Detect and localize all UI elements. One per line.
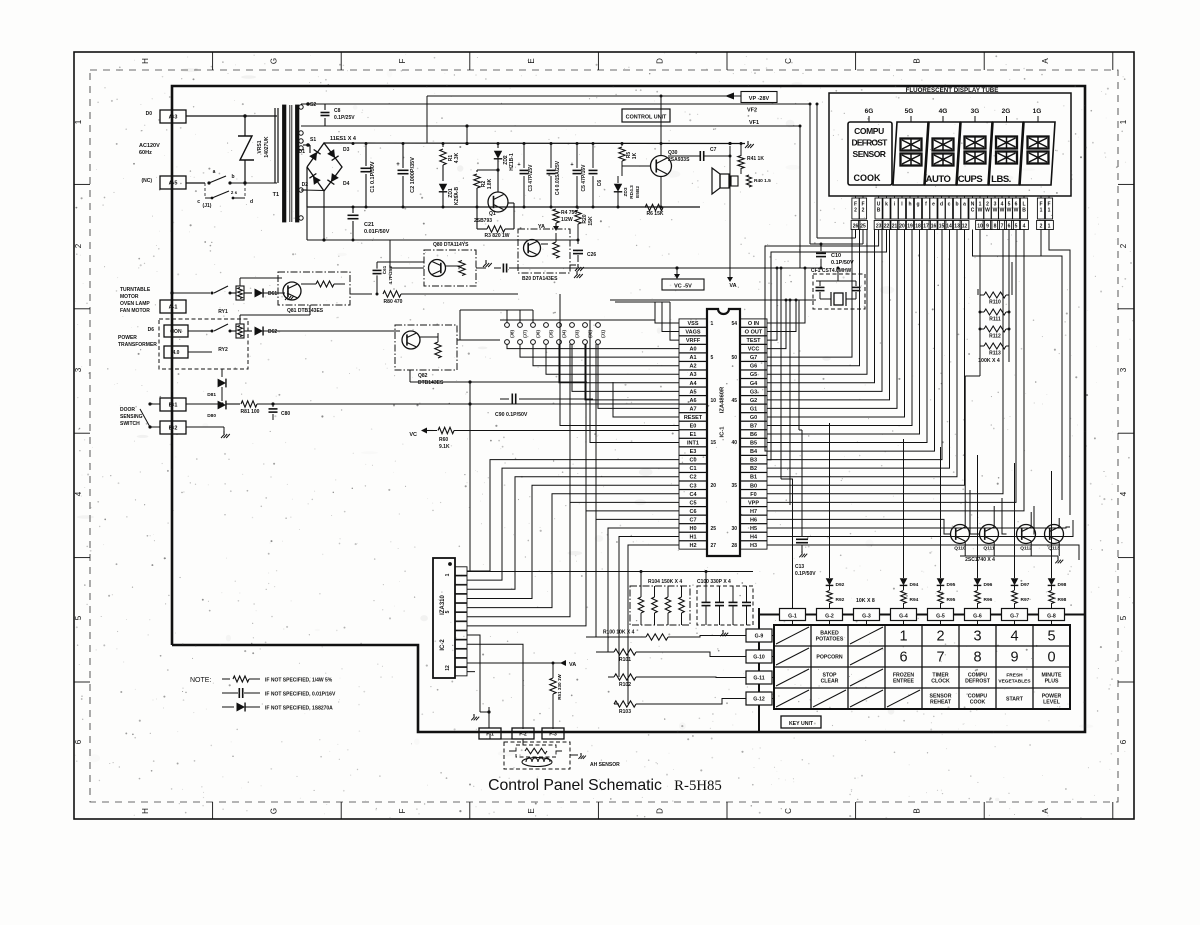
svg-text:H3: H3 xyxy=(750,543,757,549)
svg-text:c: c xyxy=(197,199,200,205)
svg-text:0.1P/50V: 0.1P/50V xyxy=(795,571,816,577)
svg-text:A0: A0 xyxy=(689,347,696,353)
svg-text:KEY UNIT: KEY UNIT xyxy=(789,721,814,727)
svg-text:A: A xyxy=(1041,58,1050,64)
svg-text:(J1): (J1) xyxy=(601,330,606,338)
svg-text:R41 1K: R41 1K xyxy=(747,156,764,162)
svg-text:D1: D1 xyxy=(299,149,306,155)
svg-text:G: G xyxy=(270,58,279,64)
svg-text:12: 12 xyxy=(962,224,968,230)
svg-text:FAN MOTOR: FAN MOTOR xyxy=(120,308,150,314)
svg-text:H7: H7 xyxy=(750,509,757,515)
svg-text:B: B xyxy=(877,208,881,214)
svg-text:POTATOES: POTATOES xyxy=(816,637,844,643)
svg-text:54: 54 xyxy=(731,321,737,327)
svg-text:5: 5 xyxy=(1119,615,1128,620)
svg-text:C90 0.1P/50V: C90 0.1P/50V xyxy=(495,412,528,418)
svg-text:A6: A6 xyxy=(689,398,696,404)
svg-text:0.1P/25V: 0.1P/25V xyxy=(334,115,355,121)
svg-text:COOK: COOK xyxy=(970,700,986,706)
svg-text:O IN: O IN xyxy=(748,321,759,327)
svg-text:b: b xyxy=(231,174,234,180)
svg-text:0.01F/50V: 0.01F/50V xyxy=(364,229,390,235)
svg-text:E1: E1 xyxy=(690,432,697,438)
svg-text:G-3: G-3 xyxy=(862,614,871,620)
svg-text:CONTROL UNIT: CONTROL UNIT xyxy=(626,115,667,121)
svg-text:AH SENSOR: AH SENSOR xyxy=(590,762,620,768)
svg-text:AC120V: AC120V xyxy=(139,143,160,149)
svg-text:F: F xyxy=(398,808,407,813)
svg-text:G-2: G-2 xyxy=(825,614,834,620)
svg-text:1G: 1G xyxy=(1033,108,1042,115)
svg-text:SWITCH: SWITCH xyxy=(120,421,140,427)
svg-text:2: 2 xyxy=(1040,224,1043,230)
svg-text:DTB143ES: DTB143ES xyxy=(418,380,444,386)
svg-text:TURNTABLE: TURNTABLE xyxy=(120,287,151,293)
svg-text:4: 4 xyxy=(1010,629,1018,645)
svg-text:+: + xyxy=(570,162,573,168)
svg-text:C7: C7 xyxy=(710,147,717,153)
svg-text:G4: G4 xyxy=(750,381,758,387)
svg-text:FRESH: FRESH xyxy=(1006,673,1023,679)
svg-text:NOTE:: NOTE: xyxy=(190,677,211,684)
svg-text:4.3K: 4.3K xyxy=(454,152,460,163)
svg-text:0.1P/50V: 0.1P/50V xyxy=(831,260,854,266)
svg-text:ZD3: ZD3 xyxy=(623,187,629,196)
svg-text:IF NOT SPECIFIED, 0.01P/16V: IF NOT SPECIFIED, 0.01P/16V xyxy=(265,692,336,698)
svg-text:C0: C0 xyxy=(689,458,696,464)
svg-text:R80 470: R80 470 xyxy=(384,299,403,305)
svg-text:(J7): (J7) xyxy=(523,330,528,338)
svg-text:k: k xyxy=(885,202,888,208)
svg-text:(NC): (NC) xyxy=(141,178,152,184)
svg-text:RD4.3: RD4.3 xyxy=(629,185,635,199)
svg-text:FLUORESCENT DISPLAY TUBE: FLUORESCENT DISPLAY TUBE xyxy=(906,87,999,94)
svg-text:C: C xyxy=(971,208,975,214)
svg-text:5: 5 xyxy=(1015,224,1018,230)
svg-text:R51 330 1W: R51 330 1W xyxy=(557,674,562,700)
svg-text:D: D xyxy=(655,808,664,814)
svg-text:RY1: RY1 xyxy=(218,309,228,315)
svg-text:G3: G3 xyxy=(750,389,757,395)
svg-text:9: 9 xyxy=(1010,650,1018,666)
svg-text:2: 2 xyxy=(74,243,83,248)
svg-text:26: 26 xyxy=(853,224,859,230)
svg-text:D: D xyxy=(655,58,664,64)
svg-text:2: 2 xyxy=(854,208,857,214)
svg-text:LBS.: LBS. xyxy=(991,174,1011,185)
svg-text:1K: 1K xyxy=(632,152,638,159)
svg-text:e: e xyxy=(932,202,935,208)
svg-text:1: 1 xyxy=(445,573,451,576)
svg-text:G-7: G-7 xyxy=(1010,614,1019,620)
svg-text:50: 50 xyxy=(731,355,737,361)
svg-text:a: a xyxy=(213,169,216,175)
svg-text:COOK: COOK xyxy=(854,173,882,183)
svg-text:LEVEL: LEVEL xyxy=(1043,700,1061,706)
svg-text:3G: 3G xyxy=(971,108,980,115)
svg-text:SENSOR: SENSOR xyxy=(853,149,886,159)
svg-text:30: 30 xyxy=(731,526,737,532)
svg-text:G-4: G-4 xyxy=(899,614,908,620)
svg-text:G-10: G-10 xyxy=(753,655,765,661)
svg-text:R112: R112 xyxy=(989,334,1001,340)
svg-text:VC -5V: VC -5V xyxy=(674,284,692,290)
svg-text:R100 10K X 4: R100 10K X 4 xyxy=(603,630,635,636)
svg-text:D80: D80 xyxy=(207,413,216,419)
svg-text:F-3: F-3 xyxy=(549,732,557,738)
svg-text:25: 25 xyxy=(711,526,717,532)
svg-text:35: 35 xyxy=(731,483,737,489)
svg-text:H1: H1 xyxy=(689,535,696,541)
svg-text:18: 18 xyxy=(915,224,921,230)
svg-text:B3: B3 xyxy=(750,458,757,464)
svg-text:VF2: VF2 xyxy=(747,108,757,114)
svg-text:R81 100: R81 100 xyxy=(241,409,260,415)
svg-text:(J1): (J1) xyxy=(203,203,212,209)
svg-text:G-6: G-6 xyxy=(973,614,982,620)
svg-text:1/2W: 1/2W xyxy=(561,217,573,223)
svg-text:E: E xyxy=(527,808,536,813)
svg-text:R101: R101 xyxy=(619,657,631,663)
svg-text:REHEAT: REHEAT xyxy=(930,700,952,706)
svg-text:D92: D92 xyxy=(836,582,845,588)
svg-text:G1: G1 xyxy=(750,406,757,412)
svg-text:d: d xyxy=(940,202,943,208)
svg-text:1: 1 xyxy=(711,321,714,327)
svg-text:DEFROST: DEFROST xyxy=(965,679,991,685)
svg-text:RESET: RESET xyxy=(684,415,703,421)
svg-text:2: 2 xyxy=(862,208,865,214)
svg-text:1: 1 xyxy=(1048,208,1051,214)
svg-text:a: a xyxy=(963,202,966,208)
svg-text:2SA933S: 2SA933S xyxy=(668,157,690,163)
svg-text:G0: G0 xyxy=(750,415,757,421)
svg-text:INT1: INT1 xyxy=(687,441,699,447)
svg-text:d: d xyxy=(250,199,253,205)
svg-text:R110: R110 xyxy=(989,300,1001,306)
svg-text:R103: R103 xyxy=(619,709,631,715)
svg-text:B4: B4 xyxy=(750,449,758,455)
svg-text:B6: B6 xyxy=(750,432,757,438)
svg-text:8: 8 xyxy=(994,224,997,230)
svg-text:2 s: 2 s xyxy=(231,190,238,195)
svg-text:D4: D4 xyxy=(343,181,350,187)
svg-text:C: C xyxy=(784,808,793,814)
svg-text:VF1: VF1 xyxy=(749,120,759,126)
svg-text:7: 7 xyxy=(936,650,944,666)
svg-text:14027UK: 14027UK xyxy=(264,136,270,158)
svg-text:A-1: A-1 xyxy=(169,305,178,311)
svg-text:DOOR: DOOR xyxy=(120,407,135,413)
svg-text:R6 15K: R6 15K xyxy=(647,211,664,217)
svg-text:+: + xyxy=(517,162,520,168)
svg-text:IZA4860R: IZA4860R xyxy=(720,386,726,413)
svg-text:START: START xyxy=(1006,697,1024,703)
svg-text:4.0: 4.0 xyxy=(173,350,180,356)
svg-text:15K: 15K xyxy=(588,216,594,226)
svg-text:6: 6 xyxy=(1008,224,1011,230)
svg-text:A3: A3 xyxy=(689,372,696,378)
svg-text:VA: VA xyxy=(729,283,736,289)
svg-text:R60: R60 xyxy=(439,437,448,443)
svg-text:R92: R92 xyxy=(836,597,845,603)
svg-text:E3: E3 xyxy=(690,449,697,455)
svg-text:VRS1: VRS1 xyxy=(257,140,263,153)
svg-text:B7: B7 xyxy=(750,423,757,429)
svg-text:27: 27 xyxy=(711,543,717,549)
svg-text:D62: D62 xyxy=(268,329,277,335)
svg-text:3: 3 xyxy=(973,629,981,645)
svg-text:O OUT: O OUT xyxy=(745,330,763,336)
svg-text:D6: D6 xyxy=(148,327,155,333)
svg-text:R94: R94 xyxy=(910,597,919,603)
svg-text:VEGETABLES: VEGETABLES xyxy=(998,679,1031,685)
svg-text:Q111: Q111 xyxy=(983,546,995,552)
svg-text:H: H xyxy=(141,808,150,814)
svg-text:C100 330P X 4: C100 330P X 4 xyxy=(697,579,731,585)
svg-text:H: H xyxy=(141,58,150,64)
svg-text:9: 9 xyxy=(986,224,989,230)
svg-text:B1: B1 xyxy=(750,475,757,481)
svg-text:D96: D96 xyxy=(984,582,993,588)
svg-text:D81: D81 xyxy=(207,392,216,398)
svg-text:10K X 8: 10K X 8 xyxy=(856,598,875,604)
svg-text:C80: C80 xyxy=(281,411,290,417)
svg-text:T1: T1 xyxy=(273,192,279,198)
svg-text:S1: S1 xyxy=(310,137,316,143)
svg-text:0: 0 xyxy=(1047,650,1055,666)
svg-text:PLUS: PLUS xyxy=(1045,679,1059,685)
svg-text:VRFF: VRFF xyxy=(686,338,701,344)
svg-text:R40 1.5: R40 1.5 xyxy=(754,178,771,184)
svg-text:1: 1 xyxy=(1119,119,1128,124)
svg-text:12: 12 xyxy=(445,665,451,671)
svg-text:D98: D98 xyxy=(1058,582,1067,588)
svg-text:R102: R102 xyxy=(619,682,631,688)
svg-text:(J5): (J5) xyxy=(549,330,554,338)
svg-text:5: 5 xyxy=(445,610,451,613)
svg-text:10: 10 xyxy=(711,398,717,404)
svg-text:C4 0.015A/25V: C4 0.015A/25V xyxy=(555,160,561,195)
svg-text:R104 150K X 4: R104 150K X 4 xyxy=(648,579,682,585)
svg-text:5: 5 xyxy=(74,615,83,620)
svg-text:SENSING: SENSING xyxy=(120,414,143,420)
svg-text:C3: C3 xyxy=(689,483,696,489)
svg-text:G-9: G-9 xyxy=(755,634,764,640)
svg-text:H6: H6 xyxy=(750,517,757,523)
svg-text:A7: A7 xyxy=(689,406,696,412)
svg-text:A2: A2 xyxy=(689,364,696,370)
svg-text:H5: H5 xyxy=(750,526,757,532)
svg-text:B: B xyxy=(1022,208,1026,214)
svg-text:Q112: Q112 xyxy=(1020,546,1032,552)
svg-text:VA: VA xyxy=(569,662,576,668)
svg-text:C1 0.1P/50V: C1 0.1P/50V xyxy=(370,161,376,193)
svg-text:W: W xyxy=(978,208,983,214)
svg-text:H2: H2 xyxy=(689,543,696,549)
svg-text:E5B2: E5B2 xyxy=(635,186,641,198)
svg-text:POPCORN: POPCORN xyxy=(816,655,842,661)
svg-text:Q110: Q110 xyxy=(954,546,966,552)
svg-text:16: 16 xyxy=(931,224,937,230)
svg-text:g: g xyxy=(916,202,919,208)
svg-text:23: 23 xyxy=(876,224,882,230)
svg-text:C6: C6 xyxy=(597,180,603,187)
svg-text:(J6): (J6) xyxy=(536,330,541,338)
svg-text:3: 3 xyxy=(74,367,83,372)
svg-text:20: 20 xyxy=(711,483,717,489)
svg-text:A1: A1 xyxy=(689,355,696,361)
svg-text:4: 4 xyxy=(74,491,83,496)
svg-text:7: 7 xyxy=(1001,224,1004,230)
svg-text:100K X 4: 100K X 4 xyxy=(978,358,1000,364)
svg-text:VC: VC xyxy=(409,432,417,438)
svg-text:DEFROST: DEFROST xyxy=(851,138,888,148)
svg-text:19: 19 xyxy=(907,224,913,230)
svg-text:G7: G7 xyxy=(750,355,757,361)
svg-text:(J3): (J3) xyxy=(575,330,580,338)
svg-text:C61: C61 xyxy=(382,265,387,274)
svg-text:F0: F0 xyxy=(750,492,756,498)
svg-text:CLOCK: CLOCK xyxy=(931,679,950,685)
svg-text:VCC: VCC xyxy=(748,347,760,353)
svg-text:28: 28 xyxy=(731,543,737,549)
svg-text:21: 21 xyxy=(892,224,898,230)
svg-text:RY2: RY2 xyxy=(218,347,228,353)
svg-text:1: 1 xyxy=(1040,208,1043,214)
svg-text:POWER: POWER xyxy=(118,335,137,341)
svg-text:IF NOT SPECIFIED, 1/4W 5%: IF NOT SPECIFIED, 1/4W 5% xyxy=(265,678,333,684)
svg-text:Q82: Q82 xyxy=(418,373,428,379)
svg-text:11ES1 X 4: 11ES1 X 4 xyxy=(330,136,357,142)
svg-text:C4: C4 xyxy=(689,492,697,498)
svg-text:F-2: F-2 xyxy=(519,732,527,738)
svg-text:B: B xyxy=(913,58,922,63)
svg-text:C10: C10 xyxy=(831,253,841,259)
svg-text:1: 1 xyxy=(1048,224,1051,230)
svg-text:R-5H85: R-5H85 xyxy=(674,778,722,794)
svg-text:60Hz: 60Hz xyxy=(139,150,152,156)
svg-text:VPP: VPP xyxy=(748,500,759,506)
svg-text:1: 1 xyxy=(74,119,83,124)
svg-text:10: 10 xyxy=(977,224,983,230)
svg-text:9.1K: 9.1K xyxy=(439,444,450,450)
svg-text:G2: G2 xyxy=(750,398,757,404)
svg-text:2: 2 xyxy=(1119,243,1128,248)
svg-text:Q30: Q30 xyxy=(668,150,678,156)
svg-text:E: E xyxy=(527,58,536,63)
svg-text:TEST: TEST xyxy=(746,338,761,344)
svg-text:Q80 DTA114YS: Q80 DTA114YS xyxy=(433,242,469,248)
svg-text:5G: 5G xyxy=(905,108,914,115)
svg-text:20: 20 xyxy=(899,224,905,230)
svg-text:R97: R97 xyxy=(1021,597,1030,603)
svg-text:13: 13 xyxy=(954,224,960,230)
svg-text:2G: 2G xyxy=(1002,108,1011,115)
svg-text:5: 5 xyxy=(1047,629,1055,645)
svg-text:(J8): (J8) xyxy=(510,330,515,338)
svg-text:+: + xyxy=(396,162,400,168)
svg-text:G-12: G-12 xyxy=(753,697,765,703)
svg-text:COMPU: COMPU xyxy=(854,126,884,136)
svg-text:G-8: G-8 xyxy=(1047,614,1056,620)
svg-text:C8: C8 xyxy=(334,108,341,114)
svg-text:C1: C1 xyxy=(689,466,696,472)
svg-text:8: 8 xyxy=(973,650,981,666)
svg-text:OVEN LAMP: OVEN LAMP xyxy=(120,301,150,307)
svg-text:C2: C2 xyxy=(689,475,696,481)
svg-text:D94: D94 xyxy=(910,582,919,588)
svg-text:G-11: G-11 xyxy=(753,676,764,682)
svg-text:Q1: Q1 xyxy=(489,211,496,217)
svg-text:IF NOT SPECIFIED, 1S8270A: IF NOT SPECIFIED, 1S8270A xyxy=(265,706,333,712)
svg-text:C21: C21 xyxy=(364,222,374,228)
svg-text:C7: C7 xyxy=(689,517,696,523)
svg-text:5: 5 xyxy=(711,355,714,361)
svg-text:HZ1B-1: HZ1B-1 xyxy=(509,153,515,171)
svg-text:C26: C26 xyxy=(587,252,596,258)
svg-text:b: b xyxy=(955,202,958,208)
svg-text:D61: D61 xyxy=(268,291,277,297)
svg-text:6: 6 xyxy=(74,739,83,744)
svg-text:W: W xyxy=(993,208,998,214)
svg-text:15: 15 xyxy=(711,440,717,446)
svg-text:S2: S2 xyxy=(310,102,316,108)
svg-text:G-5: G-5 xyxy=(936,614,945,620)
svg-text:R3 820 1W: R3 820 1W xyxy=(484,233,509,239)
svg-text:CON: CON xyxy=(170,329,182,335)
svg-text:Control Panel Schematic: Control Panel Schematic xyxy=(488,777,662,794)
svg-text:D95: D95 xyxy=(947,582,956,588)
svg-text:6: 6 xyxy=(899,650,907,666)
svg-text:Q113: Q113 xyxy=(1048,546,1060,552)
svg-text:B-1: B-1 xyxy=(169,403,178,409)
svg-text:17: 17 xyxy=(923,224,929,230)
svg-text:B2: B2 xyxy=(750,466,757,472)
svg-text:40: 40 xyxy=(731,440,737,446)
svg-text:IC-1: IC-1 xyxy=(720,426,726,438)
svg-text:B20 DTA143ES: B20 DTA143ES xyxy=(522,276,558,282)
svg-text:C6: C6 xyxy=(689,509,696,515)
svg-text:B5: B5 xyxy=(750,441,757,447)
svg-text:C5 47P/16V: C5 47P/16V xyxy=(581,164,587,192)
svg-text:A: A xyxy=(1041,808,1050,814)
svg-text:C13: C13 xyxy=(795,564,804,570)
svg-text:E0: E0 xyxy=(690,423,697,429)
svg-text:h: h xyxy=(908,202,911,208)
svg-text:D0: D0 xyxy=(146,111,153,117)
svg-text:VP -28V: VP -28V xyxy=(749,96,770,102)
svg-text:VAGS: VAGS xyxy=(685,330,701,336)
svg-text:6: 6 xyxy=(1119,739,1128,744)
svg-text:4: 4 xyxy=(1023,224,1026,230)
svg-text:15: 15 xyxy=(939,224,945,230)
svg-text:MOTOR: MOTOR xyxy=(120,294,139,300)
svg-text:R98: R98 xyxy=(1058,597,1067,603)
svg-text:2: 2 xyxy=(936,629,944,645)
svg-text:ENTREE: ENTREE xyxy=(893,679,915,685)
svg-text:C3 47P/25V: C3 47P/25V xyxy=(528,164,534,192)
svg-text:G6: G6 xyxy=(750,364,757,370)
svg-text:CLEAR: CLEAR xyxy=(821,679,839,685)
svg-text:F: F xyxy=(398,58,407,63)
svg-text:G: G xyxy=(270,808,279,814)
svg-text:4G: 4G xyxy=(939,108,948,115)
svg-text:R111: R111 xyxy=(989,317,1001,323)
svg-text:W: W xyxy=(1000,208,1005,214)
svg-text:(J4): (J4) xyxy=(562,330,567,338)
